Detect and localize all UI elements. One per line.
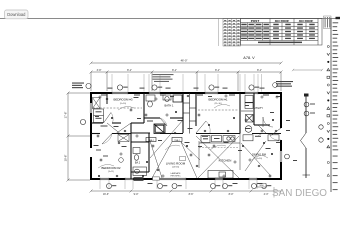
ceiling fan box living	[180, 157, 186, 161]
svg-text:3’-9”: 3’-9”	[97, 69, 102, 72]
svg-text:9’-0”: 9’-0”	[134, 193, 139, 196]
exterior walls	[91, 92, 281, 180]
bedroom3 closet doors	[93, 98, 101, 109]
kitchen-living partition	[239, 134, 241, 171]
svg-text:(9×11): (9×11)	[108, 170, 114, 173]
svg-text:TMB-2: TMB-2	[174, 140, 179, 142]
utility door arcs	[263, 117, 273, 127]
side tags	[80, 102, 323, 159]
overall dimension line 46ft	[90, 62, 283, 65]
svg-text:A78. V: A78. V	[243, 56, 255, 60]
pantry dining cabinets	[243, 135, 279, 141]
svg-text:POST: POST	[251, 19, 260, 23]
kitchen counters	[199, 136, 240, 179]
ba2 fixtures	[133, 148, 147, 176]
attic note left	[72, 83, 84, 89]
linen closet	[94, 109, 104, 123]
electrical symbols	[97, 95, 278, 177]
utility appliances	[245, 115, 253, 133]
counter labels	[203, 138, 208, 139]
shower	[154, 124, 165, 134]
svg-text:(11×10): (11×10)	[214, 102, 221, 105]
svg-text:BEDROOM #2: BEDROOM #2	[102, 166, 121, 170]
closet partition bedroom3	[106, 93, 108, 104]
extension lines window edges top	[112, 74, 262, 92]
svg-text:16’-3”: 16’-3”	[103, 193, 109, 196]
door swing bedroom3	[104, 113, 112, 124]
post-roof load table	[241, 19, 323, 46]
svg-text:BEDROOM #3: BEDROOM #3	[114, 98, 133, 102]
bath1 fixtures	[146, 95, 182, 107]
segmented dimension line	[90, 71, 283, 92]
svg-text:8’-1”: 8’-1”	[127, 69, 132, 72]
svg-text:LAMINATE: LAMINATE	[171, 172, 182, 175]
door swing bedroom1	[196, 121, 206, 133]
svg-text:BATH 1: BATH 1	[165, 104, 174, 108]
svg-text:8’-0”: 8’-0”	[229, 193, 234, 196]
kitchen soffit dashed	[199, 147, 239, 149]
door swing bath1	[160, 118, 167, 126]
door size tags bottom wall	[134, 177, 144, 181]
joist lines dining	[241, 141, 270, 175]
note right side	[276, 81, 293, 87]
svg-text:46’-0”: 46’-0”	[181, 58, 188, 62]
left vertical dimension line	[67, 92, 91, 182]
svg-text:40# ROOF: 40# ROOF	[299, 19, 314, 23]
tiny dimension texts inside plan	[94, 88, 298, 184]
strip tag texts	[310, 104, 315, 114]
sheet divider line	[330, 19, 332, 193]
joist direction lines living	[150, 120, 239, 178]
svg-text:SAN DIEGO: SAN DIEGO	[272, 188, 327, 199]
svg-text:LIVING ROOM: LIVING ROOM	[166, 161, 186, 165]
bedroom2 extra tags	[119, 158, 124, 163]
svg-text:30# ROOF: 30# ROOF	[275, 19, 290, 23]
svg-text:8’-1”: 8’-1”	[215, 69, 220, 72]
svg-text:3050: 3050	[259, 185, 263, 187]
svg-text:PER SPEC: PER SPEC	[170, 176, 181, 178]
hall door leaves	[107, 123, 131, 134]
interior walls	[91, 93, 281, 179]
svg-text:4’-3”: 4’-3”	[264, 193, 269, 196]
svg-text:17’-6”: 17’-6”	[63, 112, 67, 119]
door swing bedroom2	[102, 134, 112, 145]
svg-text:(9×10): (9×10)	[120, 102, 126, 105]
attic access circle right	[273, 83, 278, 88]
svg-text:BA.2: BA.2	[135, 162, 141, 165]
electrical legend	[327, 17, 340, 190]
mark column left of small table	[218, 19, 220, 47]
window double lines	[90, 92, 282, 180]
svg-text:8’-6”: 8’-6”	[189, 193, 194, 196]
porch dim line	[292, 69, 323, 71]
bedroom2 closet	[118, 135, 129, 142]
ceiling note top-center	[153, 74, 174, 82]
svg-text:8’-1”: 8’-1”	[172, 69, 177, 72]
window tags bottom	[107, 184, 267, 189]
svg-text:BEDROOM #1: BEDROOM #1	[209, 98, 228, 102]
extension lines window edges bottom	[100, 181, 257, 190]
door swing utility/rear	[270, 128, 281, 136]
download button	[5, 10, 29, 19]
header tag boxes	[146, 138, 182, 142]
rotated schedule note	[324, 16, 332, 29]
dashed ceiling line bedroom3	[93, 107, 142, 109]
san diego watermark	[272, 187, 327, 199]
toolbar rule	[0, 18, 340, 20]
dashed ceiling line bedroom1	[198, 109, 238, 111]
svg-text:UTILITY: UTILITY	[254, 107, 263, 110]
svg-text:(14×16): (14×16)	[172, 166, 180, 169]
svg-text:10’-6”: 10’-6”	[63, 155, 67, 162]
small schedule table	[223, 19, 241, 47]
bottom dimension line	[90, 190, 283, 193]
closet bedroom1	[241, 96, 253, 112]
svg-text:TMB-2: TMB-2	[148, 140, 153, 142]
window tags top	[117, 85, 254, 90]
switch leader curves	[98, 104, 268, 168]
wall section strip	[301, 94, 311, 179]
svg-text:8’-1”: 8’-1”	[257, 69, 262, 72]
hall closets	[183, 93, 196, 134]
svg-text:(9×10): (9×10)	[256, 157, 262, 160]
svg-text:Download: Download	[7, 12, 26, 17]
